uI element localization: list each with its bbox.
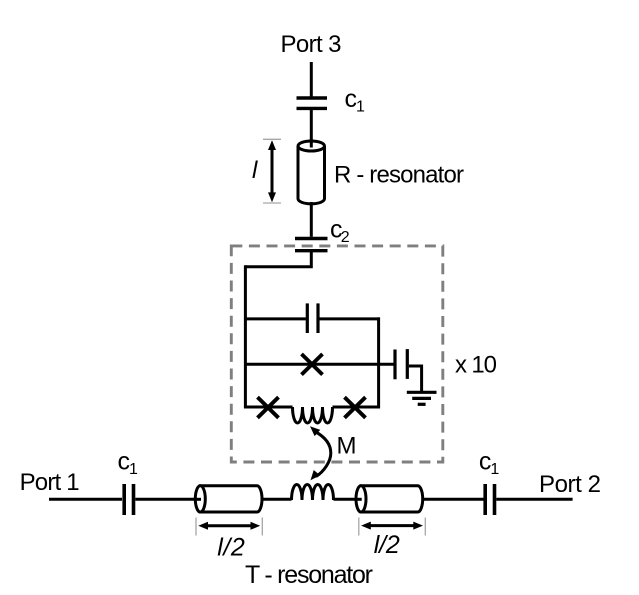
svg-text:1: 1	[356, 99, 365, 116]
svg-text:1: 1	[129, 461, 138, 478]
svg-text:T - resonator: T - resonator	[245, 561, 373, 589]
svg-text:Port 2: Port 2	[539, 471, 601, 498]
svg-text:l: l	[252, 157, 258, 184]
svg-text:M: M	[337, 432, 357, 459]
svg-text:Port 1: Port 1	[20, 469, 80, 496]
svg-text:l/2: l/2	[217, 533, 245, 561]
svg-text:1: 1	[490, 461, 499, 478]
svg-text:x 10: x 10	[455, 352, 497, 379]
svg-text:2: 2	[341, 229, 350, 246]
svg-text:Port 3: Port 3	[281, 31, 342, 58]
svg-text:R - resonator: R - resonator	[334, 162, 464, 189]
svg-text:l/2: l/2	[374, 531, 400, 559]
